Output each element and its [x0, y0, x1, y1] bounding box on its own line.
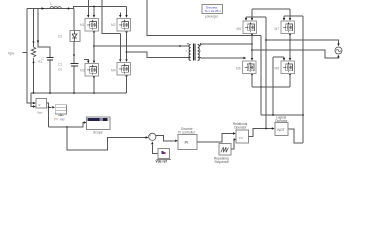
node dot secondary top at left leg	[251, 43, 253, 45]
arrows into A	[33, 102, 36, 108]
wire: capacitor C2 bottom	[49, 61, 51, 94]
svg-text:L: L	[50, 2, 52, 6]
node dot A output branch	[48, 106, 50, 108]
mosfet M7	[281, 21, 295, 34]
node dot left leg	[93, 45, 95, 47]
svg-text:Operator: Operator	[234, 126, 248, 130]
svg-text:D1: D1	[58, 35, 62, 39]
wire: AC top line	[266, 40, 339, 44]
svg-text:Cs: Cs	[58, 68, 62, 72]
svg-text:M7: M7	[275, 27, 280, 31]
wire: gate bus B vertical	[302, 16, 304, 143]
node dot resistor top	[33, 41, 35, 43]
arrow into B	[52, 106, 55, 108]
sum circle	[149, 133, 156, 142]
svg-text:v: v	[39, 103, 41, 107]
wire: comparator output	[249, 129, 273, 137]
wire: top DC bus	[27, 7, 127, 9]
node dots bottom bus	[33, 92, 35, 94]
node dot y127	[66, 126, 68, 128]
arrow into M8 gate	[283, 58, 285, 61]
arrow into AC source top	[337, 44, 339, 47]
wire: NOT output to gate bus B	[289, 129, 304, 143]
wire: M8 source drop	[289, 74, 291, 87]
arrow into M7 drain	[289, 18, 291, 21]
svg-text:M6: M6	[236, 67, 241, 71]
mosfet M3	[85, 64, 99, 77]
node dot comparator output at gate bus A	[265, 128, 267, 130]
m arrow below M1	[93, 31, 95, 34]
arrow into M5 drain	[251, 18, 253, 21]
wire: AC bottom line	[252, 50, 339, 58]
wire: secondary bottom to M6 gate	[200, 57, 244, 60]
node dot above C1	[73, 54, 75, 56]
arrow into M4 drain	[125, 59, 127, 62]
arrow into NOT	[272, 127, 275, 129]
svg-text:-: -	[151, 138, 152, 142]
wire: M5 drain riser	[251, 9, 253, 18]
wire: gate signal 1 from top edge	[87, 0, 89, 15]
node dot y115 right	[272, 114, 274, 116]
node dot left leg y50	[251, 49, 253, 51]
wire: M7 drain riser	[289, 9, 291, 18]
capacitor C2 plates	[47, 58, 54, 61]
m arrow below M5	[251, 34, 253, 37]
resistor R1	[31, 47, 35, 57]
m arrow below M4	[125, 76, 127, 79]
node dot resistor bottom	[33, 62, 35, 64]
wire: diode column top	[73, 9, 75, 32]
svg-text:M4: M4	[111, 69, 116, 73]
arrow into M7 gate	[283, 18, 285, 21]
wire: resistor column	[33, 9, 35, 94]
arrow into M4 gate	[119, 59, 121, 62]
wire: left source rail	[27, 9, 33, 104]
current arrow on top bus	[42, 7, 45, 10]
arrow into M6 drain	[251, 58, 253, 61]
comparator block	[236, 130, 249, 143]
svg-text:NOT: NOT	[278, 128, 285, 132]
svg-text:<=: <=	[239, 136, 244, 140]
wire: sense stub to capacitor C2	[38, 9, 50, 58]
wire: mid gate bus vertical	[272, 57, 274, 115]
wire: right bridge left leg	[251, 34, 253, 59]
wire: M1 drain riser	[93, 7, 95, 16]
wire: gate line from top edge to M5	[147, 0, 261, 36]
mosfet M4	[117, 63, 131, 76]
wire to B	[49, 106, 52, 108]
wire: primary bottom	[127, 52, 190, 58]
wire: sum output to PI	[156, 136, 176, 141]
ref block	[157, 149, 172, 160]
wire: M2 gate stub	[119, 13, 121, 16]
arrow on sense stub	[37, 41, 39, 44]
svg-text:Sequence: Sequence	[215, 160, 230, 164]
wire: M8 gate feed from bus	[273, 57, 284, 58]
svg-text:md: md	[60, 118, 65, 122]
node dot near transformer	[179, 45, 181, 47]
transformer T1	[186, 43, 202, 60]
wire: feedback path down	[67, 127, 146, 150]
arrow into comparator input 1	[233, 132, 236, 134]
wire: right bridge top rail	[252, 8, 290, 10]
mosfet M2	[117, 19, 131, 32]
m arrow below M7	[289, 34, 291, 37]
powergui block	[202, 5, 223, 14]
wire: right leg mid	[126, 31, 128, 59]
wire: M5 gate feed	[246, 17, 266, 18]
node dot right leg y40	[289, 39, 291, 41]
capacitor C1 plates	[71, 64, 79, 67]
arrow into PI	[175, 140, 178, 142]
scope block	[87, 117, 111, 130]
tick at Vpv node	[23, 52, 28, 54]
node dot right leg	[126, 51, 128, 53]
wire: M6 source drop	[251, 74, 253, 87]
block B display	[55, 105, 66, 116]
svg-text:PI controller: PI controller	[178, 131, 196, 135]
arrow into M1 drain	[93, 15, 95, 18]
arrow into M3 gate	[87, 61, 89, 64]
wire: diode to C1	[73, 42, 75, 64]
m arrow below M8	[289, 74, 291, 77]
wire: PI output to comparator	[197, 134, 234, 143]
svg-text:M8: M8	[275, 67, 280, 71]
m arrow below M2	[125, 31, 127, 34]
arrow into M6 gate	[244, 57, 247, 59]
wire: gate bus A vertical	[265, 17, 267, 129]
wire: sawtooth to comparator input 2	[231, 140, 234, 150]
arrow into M3 drain	[93, 61, 95, 64]
inductor L	[50, 7, 61, 9]
svg-text:M2: M2	[111, 23, 116, 27]
sawtooth block	[219, 144, 231, 156]
arrow into M5 gate	[245, 18, 247, 21]
m arrow below M6	[251, 74, 253, 77]
svg-text:M3: M3	[80, 69, 85, 73]
wire: A output	[47, 103, 49, 127]
svg-text:Ts = 2e-06 s: Ts = 2e-06 s	[205, 9, 222, 13]
wire: left leg mid	[93, 31, 95, 61]
mosfet M1	[85, 19, 99, 32]
arrow into M2 gate	[119, 15, 121, 18]
wire: y115 horizontal	[261, 114, 303, 116]
mosfet M5	[243, 21, 257, 34]
AC source V1	[335, 47, 342, 54]
svg-text:M5: M5	[237, 27, 242, 31]
wire: bottom bus	[31, 93, 127, 107]
PI block	[178, 135, 197, 150]
svg-text:Vdc ref: Vdc ref	[156, 160, 168, 164]
arrow into AC source bottom	[337, 55, 339, 58]
mosfet M6	[243, 61, 257, 74]
NOT block	[275, 123, 288, 136]
wire: gate signal 2 from top edge	[102, 0, 120, 59]
wire: m bus vertical	[260, 36, 262, 116]
diode D1	[70, 31, 80, 42]
wire: secondary top to right bridge	[200, 44, 253, 46]
svg-text:C1: C1	[58, 63, 62, 67]
wire: ref block to sum	[152, 144, 158, 153]
m arrow below M3	[93, 77, 95, 80]
wire: M3 gate stub	[84, 60, 88, 61]
node dot bottom rail	[260, 86, 262, 88]
wire: M3 source to bottom bus	[93, 76, 95, 93]
arrow into M1 gate	[87, 15, 89, 18]
svg-text:powergui: powergui	[205, 15, 218, 19]
wire: y127 bus to scope	[49, 123, 84, 128]
svg-text:Vpv: Vpv	[37, 111, 43, 115]
arrow into sum	[146, 136, 149, 138]
block: voltage measurement A	[36, 99, 47, 109]
arrow into M8 drain	[289, 58, 291, 61]
svg-text:M1: M1	[80, 23, 85, 27]
node: junction dot top bus	[68, 8, 70, 10]
arrow into M2 drain	[125, 15, 127, 18]
mosfet M8	[281, 61, 295, 74]
wire: primary top	[94, 45, 189, 47]
node dot gate bus B at y115	[302, 114, 304, 116]
arrow into scope	[84, 121, 87, 123]
node dot AC top at gate bus A	[265, 39, 267, 41]
svg-text:Scope: Scope	[93, 131, 103, 135]
wire: M2 drain riser	[126, 7, 128, 16]
svg-text:PI: PI	[185, 140, 189, 145]
arrow into comparator input 2	[234, 138, 237, 140]
wire: M4 source to bottom bus	[126, 75, 128, 93]
arrow into sum bottom	[151, 142, 153, 145]
wire: C1 bottom	[73, 67, 75, 94]
wire: M7 gate feed	[284, 16, 303, 18]
wire: right bridge right leg	[289, 34, 291, 59]
wire: right bridge bottom rail	[252, 86, 290, 88]
svg-text:Vpv: Vpv	[8, 52, 14, 56]
